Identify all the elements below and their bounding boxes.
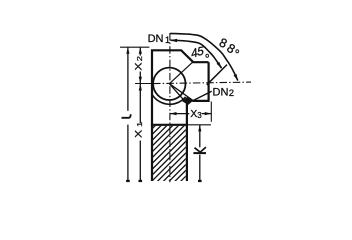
seat arc (lower secondary circle) [152,95,185,104]
extension line X3 right vertical [210,102,212,122]
88 deg dimension arc [170,33,238,80]
arrowhead 88 arc bottom end [234,74,238,81]
arrowhead 45 arc right end [217,62,222,68]
dimension line k [199,125,201,148]
dimension line X1 [139,84,141,123]
seat cone line lower [169,84,188,105]
45 deg dimension arc [171,40,222,68]
label l (rotated, drawn as path) [122,114,131,118]
seat cone line upper [169,84,193,101]
hatching of flange section [58,118,250,188]
extension line flange top right [187,124,211,126]
dimension line X3 [170,113,189,115]
ball circle [153,68,185,100]
label X1 (rotated) [134,121,144,138]
label X2 (rotated) [134,56,144,71]
svg-text:°: ° [235,48,240,62]
seat plug diamond [182,97,193,105]
svg-text:X: X [134,130,144,138]
svg-text:°: ° [205,52,210,66]
svg-text:2: 2 [136,56,144,62]
extension line top (y=47.2) [120,46,149,48]
flange top edge [151,124,187,126]
arrowhead 45 arc left end [171,39,178,42]
horizontal centerline DN2 axis [153,82,251,84]
flange right edge [186,104,188,182]
dimension line X2 [139,47,141,55]
svg-text:1: 1 [165,35,170,45]
seat axis line A at 45 deg [169,62,193,84]
45 deg reference diagonal at port [207,65,227,85]
svg-text:3: 3 [197,111,202,120]
svg-text:X: X [134,62,144,70]
valve body outline [152,50,209,181]
DN2 leader line from diamond [193,91,212,100]
svg-text:DN: DN [213,86,229,98]
svg-text:2: 2 [229,88,234,99]
vertical centerline DN1 axis [169,33,171,182]
svg-text:1: 1 [136,121,144,127]
svg-text:DN: DN [148,33,164,45]
extension line mid left (center height) [135,83,152,85]
dimension line l [127,47,129,111]
label k (rotated, drawn) [193,152,206,154]
